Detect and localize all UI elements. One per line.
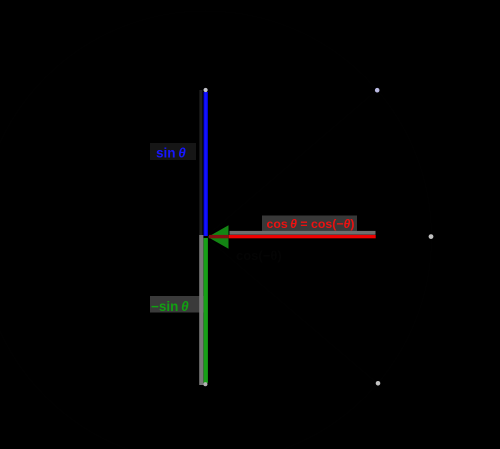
point dot P(theta)	[375, 88, 380, 93]
radius to P(theta) (invisible: black on black)	[206, 90, 378, 237]
point dot bottom of green	[203, 382, 207, 386]
svg-text:−sin θ: −sin θ	[151, 299, 189, 314]
svg-text:sin θ: sin θ	[156, 146, 186, 161]
label halo cos	[262, 216, 357, 232]
y-axis upper gray companion (left of blue arrow)	[199, 90, 202, 236]
point dot P(-theta)	[376, 381, 381, 386]
point dot (1,0)	[429, 234, 434, 239]
x-axis gray companion (above red arrow)	[230, 231, 376, 235]
point dot top of blue	[204, 88, 208, 92]
red cos arrow shaft	[229, 235, 376, 238]
green -sin arrow shaft	[204, 238, 208, 383]
svg-text:cos θ = cos(−θ): cos θ = cos(−θ)	[267, 217, 355, 231]
green arrowhead at origin pointing left	[208, 225, 229, 248]
red cos arrow shaft (dark part under green head)	[209, 235, 229, 238]
label halo -sin	[150, 296, 205, 313]
radius to P(-theta) (invisible: black on black)	[206, 237, 379, 384]
label halo sin	[150, 143, 196, 160]
blue sin arrow shaft	[204, 92, 208, 236]
y-axis lower gray companion (left of green arrow)	[199, 235, 203, 385]
svg-text:cos(−θ): cos(−θ)	[236, 248, 282, 263]
